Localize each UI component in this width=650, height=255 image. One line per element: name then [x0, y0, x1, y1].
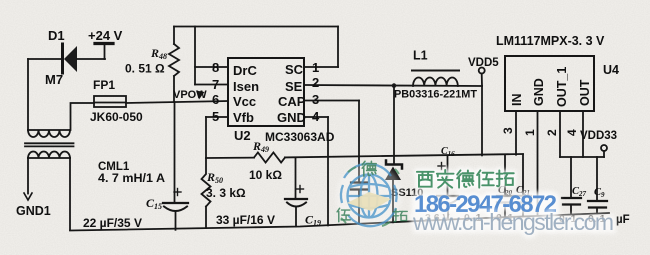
wire U4 pin OUT_1 down — [559, 111, 561, 157]
wire OUT rail — [560, 156, 604, 158]
svg-text:4: 4 — [312, 109, 320, 124]
resistor R48 branch from top rail — [169, 27, 179, 103]
ground rail — [70, 213, 609, 231]
svg-text:2: 2 — [312, 75, 319, 90]
wire left input to D1 — [28, 58, 61, 60]
svg-text:4. 7 mH/1 A: 4. 7 mH/1 A — [98, 173, 165, 185]
svg-text:U4: U4 — [603, 63, 619, 77]
svg-text:1: 1 — [523, 129, 537, 136]
svg-text:Vcc: Vcc — [233, 94, 256, 109]
svg-text:SE: SE — [285, 79, 303, 94]
svg-text:µF: µF — [616, 214, 630, 226]
svg-text:OUT_1: OUT_1 — [555, 67, 569, 107]
diode D1 — [63, 44, 78, 73]
svg-text:3. 3 kΩ: 3. 3 kΩ — [206, 186, 246, 200]
wire choke bottom to ground rail — [69, 158, 71, 230]
timing capacitor — [351, 183, 367, 225]
svg-text:Vfb: Vfb — [233, 110, 254, 125]
wire U4 pin IN down — [515, 111, 517, 155]
svg-text:2: 2 — [545, 129, 559, 136]
svg-text:33 µF/16 V: 33 µF/16 V — [216, 213, 275, 227]
ground arrow GND1 — [24, 193, 32, 200]
svg-text:VDD5: VDD5 — [468, 57, 499, 69]
watermark text line 2 — [414, 191, 557, 218]
wire U4 pin GND down to rail — [537, 111, 539, 215]
svg-text:PB03316-221MT: PB03316-221MT — [394, 89, 477, 101]
svg-text:8: 8 — [212, 60, 219, 75]
wire D1 to +24V tap — [77, 58, 105, 60]
watermark text line 3 — [412, 209, 614, 235]
capacitor C27 branch — [562, 157, 581, 214]
wire U4 pin OUT down — [582, 111, 584, 157]
svg-text:10 kΩ: 10 kΩ — [249, 168, 282, 182]
svg-text:+24 V: +24 V — [88, 28, 123, 43]
svg-text:6: 6 — [212, 92, 219, 107]
wire choke to fuse — [71, 103, 95, 130]
op-amp U2 MC33063AD box — [228, 58, 304, 126]
choke core lines — [25, 142, 74, 144]
node junction at diode — [392, 83, 397, 88]
svg-text:5: 5 — [212, 109, 219, 124]
capacitor C15 branch — [163, 102, 188, 230]
svg-text:1: 1 — [312, 60, 319, 75]
capacitor C16 branch (bulk output cap) — [437, 156, 458, 218]
svg-text:Isen: Isen — [233, 79, 259, 94]
common-mode choke CML1 top winding — [28, 130, 70, 137]
capacitor C21 branch — [515, 154, 531, 216]
svg-text:3: 3 — [312, 92, 319, 107]
svg-text:GND1: GND1 — [16, 204, 51, 218]
wire left vertical D1 to transformer — [27, 59, 29, 130]
svg-text:L1: L1 — [413, 49, 428, 63]
svg-text:4: 4 — [565, 129, 579, 136]
watermark logo globe — [336, 161, 407, 229]
+24V terminal bar — [95, 44, 113, 60]
svg-text:0. 51 Ω: 0. 51 Ω — [125, 62, 165, 76]
capacitor C19 branch — [285, 158, 307, 227]
svg-text:VPOW: VPOW — [173, 89, 207, 101]
svg-text:FP1: FP1 — [93, 78, 115, 92]
wire pin2 SE to L1 — [304, 85, 482, 86]
svg-text:GND: GND — [532, 78, 546, 106]
capacitor C20 branch — [497, 155, 513, 216]
wire pin1 SC to top rail — [304, 27, 338, 68]
svg-text:M7: M7 — [45, 72, 63, 87]
svg-text:VDD33: VDD33 — [580, 130, 617, 142]
top rail wire — [174, 26, 338, 28]
svg-text:www.cn-hengstler.com: www.cn-hengstler.com — [412, 209, 614, 235]
svg-text:IN: IN — [510, 94, 524, 107]
diode SS110 branch — [385, 86, 402, 223]
svg-text:3: 3 — [501, 127, 515, 134]
svg-text:CML1: CML1 — [98, 161, 130, 173]
net marker VPOW triangle — [196, 91, 205, 100]
resistor R50 branch to ground — [202, 158, 211, 228]
svg-text:OUT: OUT — [578, 79, 592, 106]
capacitor C9 branch — [588, 157, 607, 213]
svg-text:SC: SC — [285, 62, 304, 77]
svg-text:LM1117MPX-3. 3 V: LM1117MPX-3. 3 V — [496, 34, 605, 48]
watermark text line 1 — [417, 170, 514, 188]
node VDD5 — [479, 68, 485, 156]
feedback wire with R49 — [206, 153, 523, 163]
fuse FP1 — [94, 96, 126, 107]
svg-text:MC33063AD: MC33063AD — [265, 130, 335, 144]
svg-text:CAP: CAP — [278, 94, 306, 109]
svg-text:DrC: DrC — [233, 63, 257, 78]
wire VPOW net fuse to U2 Vcc pin6 — [126, 101, 228, 103]
node VDD33 — [601, 145, 607, 157]
svg-text:JK60-050: JK60-050 — [90, 110, 143, 124]
inductor L1 — [412, 71, 459, 87]
svg-text:U2: U2 — [234, 128, 251, 143]
svg-text:D1: D1 — [48, 28, 65, 43]
wire GND1 drop — [27, 158, 29, 194]
wire top rail to pins 8,7 — [195, 27, 228, 85]
wire pin5 Vfb to divider — [206, 117, 228, 158]
svg-text:GND: GND — [277, 110, 306, 125]
wire pin3 CAP to timing cap — [304, 101, 359, 183]
common-mode choke CML1 bottom winding — [28, 152, 70, 159]
regulator U4 LM1117 box — [505, 56, 594, 111]
svg-text:22 µF/35 V: 22 µF/35 V — [83, 216, 142, 230]
svg-text:7: 7 — [212, 77, 219, 92]
wire pin4 GND to ground rail — [304, 117, 328, 225]
